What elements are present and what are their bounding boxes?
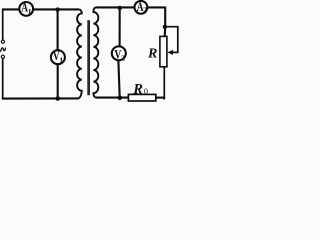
wire left vertical upper [2, 9, 4, 40]
node junction V1 bottom [55, 96, 60, 101]
voltmeter V1 [51, 50, 65, 64]
svg-text:2: 2 [121, 54, 125, 63]
transformer primary coil [77, 9, 82, 98]
transformer secondary coil [93, 7, 98, 97]
rheostat wiper arrowhead [167, 50, 173, 55]
wire V2 stem lower [118, 61, 119, 98]
svg-text:1: 1 [28, 7, 32, 16]
wire bottom right (secondary return) [96, 97, 129, 99]
svg-text:0: 0 [144, 87, 148, 96]
voltmeter V2 [112, 46, 126, 60]
transformer core line right [88, 20, 90, 95]
rheostat R body [160, 36, 167, 66]
label R0 (resistor) [132, 81, 148, 97]
ammeter A1 [19, 2, 33, 16]
label A2 [137, 0, 147, 15]
svg-text:2: 2 [143, 6, 147, 15]
rheostat bypass wire (top junction to wiper) [165, 27, 178, 53]
rheostat bottom lead [163, 67, 164, 99]
ammeter A2 [135, 1, 148, 14]
wire A1 to V1 junction to primary top [34, 8, 79, 10]
wire bottom-left [2, 97, 79, 99]
wire right vertical to R top junction [164, 7, 167, 37]
wire A2 to right corner [148, 6, 166, 8]
wire V1 stem lower [57, 65, 59, 99]
node junction V1 top [55, 7, 59, 11]
resistor R0 body [128, 94, 155, 101]
label A1 [21, 1, 32, 16]
wire V1 stem upper [57, 9, 59, 50]
svg-text:1: 1 [59, 56, 63, 65]
node junction V2 top [118, 6, 122, 10]
node junction V2 bottom [118, 96, 123, 101]
wire top-left segment [2, 8, 19, 10]
label V2 [114, 47, 125, 62]
transformer core line left [87, 20, 89, 95]
wire left vertical lower [2, 59, 4, 100]
svg-text:R: R [147, 46, 157, 61]
wire R0 to rheostat bottom lead [156, 97, 166, 99]
AC source terminal lower [1, 55, 4, 58]
AC tilde [1, 48, 6, 52]
label V1 [53, 49, 63, 65]
node junction R top [163, 25, 167, 29]
svg-text:R: R [132, 81, 142, 97]
AC source terminal upper [1, 40, 4, 43]
wire V2 stem upper [119, 7, 121, 46]
wire secondary top to A2 [96, 6, 135, 8]
